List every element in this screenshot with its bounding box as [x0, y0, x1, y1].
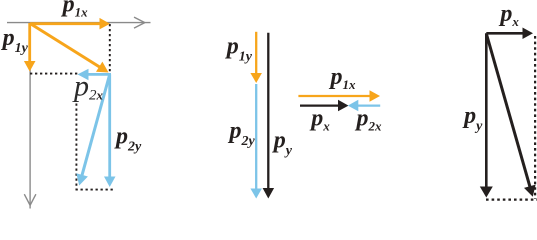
vector px (right, black horizontal) — [486, 28, 533, 40]
vector p1 (orange diagonal) — [30, 24, 108, 73]
dotted line right side (right diagram) — [534, 36, 536, 199]
vector p1y (orange, middle vertical) — [250, 32, 262, 83]
dotted line right side of p1 rectangle — [109, 24, 111, 74]
vector p2x (blue, middle horizontal, points left) — [348, 100, 380, 112]
y axis (gray) — [24, 23, 36, 209]
dotted line left side of p2 rectangle — [75, 104, 77, 190]
vector p resultant (black diagonal) — [486, 34, 535, 197]
x axis (gray) — [7, 17, 151, 28]
vector px (black, middle horizontal) — [300, 100, 349, 112]
dotted line bottom of p1 rectangle — [30, 73, 78, 75]
dotted line bottom of p2 rectangle — [76, 189, 114, 191]
vector py (right, black vertical) — [480, 33, 493, 197]
dotted line bottom (right diagram) — [486, 199, 537, 201]
vector p2x component (blue horizontal, points left) — [78, 69, 112, 81]
vector p2 (blue diagonal) — [76, 74, 109, 185]
vector p1y component (orange vertical) — [24, 23, 36, 72]
vector p2y (blue, middle vertical) — [250, 84, 262, 199]
vector p2y component (blue vertical) — [104, 74, 116, 187]
vector p1x (orange, middle horizontal) — [298, 90, 380, 102]
vector py (black, middle vertical) — [263, 33, 275, 199]
vector p1x component (orange horizontal) — [30, 18, 110, 30]
